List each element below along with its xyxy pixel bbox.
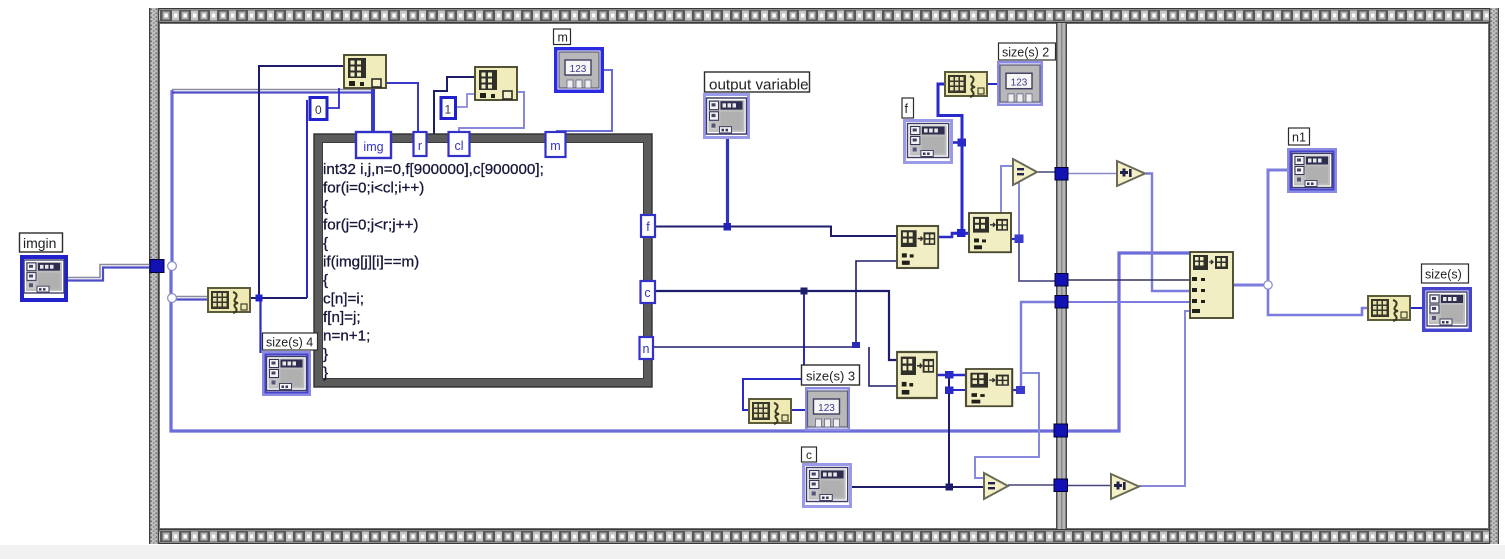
svg-text:0: 0 <box>315 103 322 117</box>
wire constant 1 to index array 2 <box>455 94 476 107</box>
svg-text:for(i=0;i<cl;i++): for(i=0;i<cl;i++) <box>323 180 424 197</box>
local c icon <box>802 463 852 508</box>
svg-text:c: c <box>644 286 650 300</box>
wire array size 3 output <box>792 409 805 411</box>
local c label <box>802 447 817 462</box>
wire down to size(s)4 indicator <box>259 298 261 353</box>
frame 2: indicator n1 label <box>1289 128 1310 145</box>
indicator size(s) 4 icon <box>262 351 311 396</box>
background below frame <box>0 545 1505 559</box>
wire reshape 1 output to build array 1 <box>938 233 969 237</box>
svg-text:{: { <box>323 198 328 215</box>
reshape array 2 <box>897 352 937 398</box>
wire equal 1 top input <box>1001 166 1012 213</box>
wire index array 2 output loop to cl terminal <box>459 92 524 134</box>
svg-text:output variable: output variable <box>709 77 809 94</box>
wire m control to m terminal <box>557 70 612 136</box>
wire output variable local down <box>726 139 729 227</box>
junction build array 1 input <box>957 229 966 237</box>
wire size array up to index array 1 <box>259 66 345 298</box>
wire array size 4 to size(s) <box>1410 307 1422 309</box>
svg-text:n1: n1 <box>1292 131 1306 145</box>
local output variable icon <box>703 93 750 139</box>
wire T5/T6 lower: tunnel to increment 2 and up to node R <box>1067 485 1111 487</box>
reshape array 1 <box>897 226 938 268</box>
svg-text:imgin: imgin <box>23 235 56 251</box>
svg-text:n=n+1;: n=n+1; <box>323 328 370 345</box>
control m label <box>554 29 571 45</box>
wire c terminal to reshape array 2 <box>656 291 897 360</box>
index array 1 <box>344 55 386 88</box>
wire f terminal to reshape array 1 <box>656 227 897 237</box>
svg-text:m: m <box>558 31 568 45</box>
array size 3 <box>749 399 791 424</box>
joint dot node R output <box>1264 281 1272 289</box>
wire long 2D run to frame 2 node <box>171 253 1192 431</box>
sequence divider between frame 1 and frame 2 <box>1056 23 1067 529</box>
control imgin icon <box>20 255 68 302</box>
junction build array 2 input <box>945 387 954 395</box>
frame 2: array size 4 <box>1368 296 1410 321</box>
svg-text:size(s): size(s) <box>1425 268 1462 282</box>
formula node terminals <box>356 132 655 359</box>
build array 2 <box>966 369 1012 406</box>
junction build array 2 output <box>1016 386 1025 394</box>
index array 2 <box>475 67 517 100</box>
junction c net branch <box>801 288 808 295</box>
svg-text:1: 1 <box>445 103 452 117</box>
wire build2 loop to equal 2 input <box>975 373 1039 478</box>
wire equal 1 output to tunnel <box>1038 171 1058 173</box>
wire c branch down to array size 3 <box>743 291 804 410</box>
array size 2 <box>945 72 987 97</box>
flat sequence frame top border <box>149 8 1499 23</box>
wire reshape 2 output to build array 2 <box>937 374 966 377</box>
svg-text:f[n]=j;: f[n]=j; <box>323 309 361 326</box>
svg-text:size(s) 3: size(s) 3 <box>806 369 855 384</box>
svg-text:int32 i,j,n=0,f[900000],c[9000: int32 i,j,n=0,f[900000],c[900000]; <box>323 161 544 178</box>
constant 0 <box>310 98 327 120</box>
wire f local to array size 2 and down to build array 1 <box>953 141 962 144</box>
wire 2D array top run to formula img terminal <box>172 89 373 91</box>
svg-text:{: { <box>323 235 328 252</box>
frame 2: increment 2 <box>1111 474 1139 499</box>
wire node R output <box>1233 284 1270 287</box>
frame 2: node R index/reshape <box>1190 252 1233 318</box>
svg-text:r: r <box>418 139 422 153</box>
junction f local output <box>958 139 967 147</box>
frame 2: indicator size(s) icon <box>1422 287 1472 332</box>
svg-text:size(s) 2: size(s) 2 <box>1002 46 1049 60</box>
equal 2 <box>984 473 1008 499</box>
joint dot imgin wire upper <box>168 262 177 271</box>
indicator size(s) 2 icon <box>997 61 1043 106</box>
wire array size 1 output <box>250 297 307 299</box>
tunnel T6 <box>1054 479 1068 492</box>
wire equal 2 output to tunnel <box>1008 484 1056 486</box>
wire 2D array up from tunnel to top run <box>170 90 173 267</box>
wire build2 up to tunnel T3 <box>1021 302 1056 390</box>
tunnel T5 long wire <box>1054 424 1068 437</box>
wire T1 to increment 1 <box>1067 173 1117 175</box>
tunnel T3 <box>1055 296 1068 309</box>
svg-text:f: f <box>905 102 909 116</box>
frame inner edge lines <box>159 23 1489 24</box>
svg-text:}: } <box>323 346 328 363</box>
control m icon <box>554 47 604 93</box>
tunnel T2 <box>1055 274 1068 287</box>
tunnel imgin input <box>150 260 164 273</box>
svg-text:if(img[j][i]==m): if(img[j][i]==m) <box>323 254 419 271</box>
junction c local wire <box>946 484 954 491</box>
svg-text:c: c <box>806 448 812 462</box>
indicator size(s) 2 label <box>999 43 1056 60</box>
control imgin label <box>20 233 63 252</box>
svg-text:size(s) 4: size(s) 4 <box>266 336 313 350</box>
svg-text:{: { <box>323 272 328 289</box>
junction output variable on f wire <box>724 223 732 231</box>
svg-text:cl: cl <box>454 139 463 153</box>
wire T3 to node R <box>1067 301 1190 303</box>
flat sequence frame bottom border <box>150 529 1499 544</box>
wire index array 1 output to r terminal <box>380 83 418 133</box>
local f icon <box>903 119 953 164</box>
flat sequence frame right border <box>1489 8 1499 544</box>
array size 1 <box>208 288 250 313</box>
tunnel T1 <box>1055 168 1068 181</box>
svg-text:f: f <box>646 220 650 234</box>
wire T2 to node R <box>1067 279 1190 281</box>
joint dot imgin wire lower <box>168 294 177 303</box>
junction at array size 1 output branch <box>256 295 263 302</box>
wire array size 2 output to size(s)2 <box>986 83 997 85</box>
local output variable label <box>705 72 810 94</box>
indicator size(s) 3 label <box>802 365 860 385</box>
wire vertical node at x307 <box>306 100 308 298</box>
wire imgin 2D array to tunnel <box>68 265 152 278</box>
wire build array 1 output and branches <box>1011 238 1019 240</box>
svg-text:m: m <box>550 139 560 153</box>
junction reshape 2 output <box>945 371 954 379</box>
wire navy feed to index array 2 <box>434 77 476 135</box>
frame 2: increment 1 <box>1117 161 1145 186</box>
wire tunnel to array size 1 <box>172 296 209 298</box>
frame 2: indicator n1 icon <box>1287 148 1337 193</box>
frame 2: indicator size(s) label <box>1422 264 1469 283</box>
svg-text:n: n <box>643 342 650 356</box>
wire c local output to equal 2 <box>852 486 983 488</box>
local f label <box>902 98 914 118</box>
wire constant 0 to index array 1 <box>327 88 339 108</box>
equal 1 <box>1013 159 1037 185</box>
svg-text:c[n]=i;: c[n]=i; <box>323 291 364 308</box>
svg-text:}: } <box>323 365 328 382</box>
wire n terminal net <box>653 346 856 348</box>
build array 1 <box>969 213 1011 252</box>
junction build array 1 output <box>1015 235 1024 244</box>
junction n net branch <box>852 342 860 348</box>
indicator size(s) 3 icon <box>805 387 850 431</box>
constant 1 <box>441 98 456 119</box>
indicator size(s) 4 label <box>263 333 318 350</box>
wire increment 1 output <box>1146 174 1190 292</box>
wire thick drop into img terminal <box>371 86 375 135</box>
svg-text:img: img <box>363 140 383 154</box>
wire build array 2 output <box>1012 389 1021 391</box>
svg-text:for(j=0;j<r;j++): for(j=0;j<r;j++) <box>323 217 418 234</box>
flat sequence frame left border <box>149 8 159 544</box>
